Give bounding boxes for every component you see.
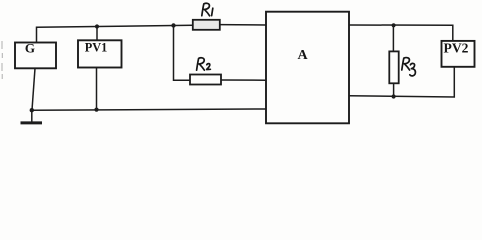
voltmeter PV2 box (442, 41, 475, 67)
wire G bottom to ground bus (32, 68, 35, 110)
wire scan artifact left edge (1, 41, 3, 79)
svg-text:G: G (25, 41, 35, 56)
label R3 (402, 58, 410, 70)
label R1 (202, 3, 210, 16)
node junction above PV1 (95, 24, 99, 28)
svg-text:PV2: PV2 (444, 41, 469, 56)
voltmeter PV1 box (78, 40, 122, 67)
resistor R2 (190, 75, 221, 85)
wire PV1 bottom lead (96, 68, 98, 110)
wire branch down to R2 (174, 26, 191, 81)
resistor R3 (389, 51, 398, 83)
wire R3 bottom lead (393, 83, 395, 96)
resistor R1 (193, 20, 220, 30)
box A (266, 12, 349, 124)
node junction top of R3 (392, 23, 396, 27)
generator G box (15, 43, 56, 69)
node junction bottom of R3 (392, 94, 396, 98)
wire R3 top lead (392, 25, 394, 51)
node junction below PV1 (94, 108, 98, 112)
wire bottom bus to A (32, 109, 266, 110)
svg-text:PV1: PV1 (85, 41, 108, 55)
wire R2 to A (221, 79, 266, 81)
wire A right top to PV2 top (349, 25, 453, 41)
node junction at R1/R2 branch (171, 23, 175, 27)
label R2 (197, 58, 205, 70)
wire R1 to A (220, 24, 266, 26)
svg-text:A: A (298, 48, 309, 63)
wire A right bottom to PV2 bottom (349, 67, 454, 97)
wire PV1 top lead (96, 27, 98, 41)
node junction at ground (30, 108, 34, 112)
wire top bus left (above G to R1) (37, 25, 194, 42)
ground (31, 110, 33, 122)
